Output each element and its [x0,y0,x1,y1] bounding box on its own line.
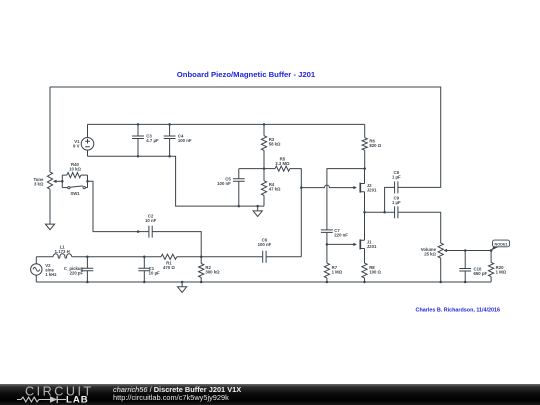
capacitor C8 1uF [395,181,398,193]
label C10 [474,266,488,276]
node R40 left [61,180,64,183]
svg-text:1.173 H: 1.173 H [55,249,70,254]
wire top rail from Tune top to C8 right drop [50,87,441,187]
svg-text:LAB: LAB [66,394,89,405]
node drain J2 [363,167,366,170]
label R2 [205,265,220,275]
node C4 bottom [168,155,171,158]
label C1 [149,266,160,276]
svg-text:10 µF: 10 µF [149,271,160,276]
svg-text:NODE1: NODE1 [495,242,508,246]
label R5 [275,156,290,166]
ground mid rail [253,206,262,216]
node J2 source [363,211,366,214]
node C3 top [137,123,140,126]
svg-text:1 µF: 1 µF [392,200,401,205]
svg-text:58 kΩ: 58 kΩ [269,142,281,147]
label R4 [269,182,281,192]
resistor R4 47k [261,169,266,207]
title text [177,70,316,79]
node C10 top [464,249,467,252]
wire V1 bottom lead [87,150,89,156]
node R20 top [490,249,493,252]
label R7 [332,265,343,275]
wire V1 minus rail [88,156,265,206]
node divider [263,167,266,170]
label J2 [367,183,377,193]
capacitor C10 650pF [459,251,471,283]
svg-text:300 kΩ: 300 kΩ [205,269,220,274]
node C_pickup top [86,256,89,259]
node rail R8 [363,281,366,284]
banner bar [0,384,540,405]
signature text [416,307,501,313]
svg-text:10 nF: 10 nF [145,218,157,223]
node rail C_pickup [86,281,89,284]
wire V2 bottom lead [35,275,37,282]
svg-text:47 kΩ: 47 kΩ [269,187,281,192]
svg-text:Onboard Piezo/Magnetic Buffer: Onboard Piezo/Magnetic Buffer - J201 [177,70,316,79]
potentiometer Tune 3k [47,172,62,189]
svg-text:220 pF: 220 pF [70,271,84,276]
wire SW1 to C2 [88,181,149,231]
label C9 [392,195,401,205]
label C8 [392,170,401,180]
label R3 [269,137,281,147]
wire J1 gate line [327,243,354,245]
svg-text:820 Ω: 820 Ω [369,143,381,148]
node J1 gate [326,243,329,246]
wire signal line mid [72,256,161,258]
svg-text:470 Ω: 470 Ω [163,265,175,270]
svg-text:Charles B. Richardson, 11/4/20: Charles B. Richardson, 11/4/2016 [416,307,501,313]
resistor R8 100 [362,263,367,282]
node J2 gate [300,186,303,189]
svg-text:25 kΩ: 25 kΩ [424,251,436,256]
capacitor C_pickup 220pF [82,257,94,282]
resistor R40 box sides [62,175,87,188]
wire drain node line [327,169,365,230]
label Tune [33,177,44,187]
node on C2 wire [137,230,140,233]
label C3 [146,134,159,144]
svg-text:220 nF: 220 nF [334,233,348,238]
ground below Tune [45,219,54,229]
node ground mid [256,205,259,208]
inductor L1 [53,254,72,258]
label V1 [73,139,80,149]
svg-text:100 nF: 100 nF [178,138,192,143]
node C8 tap [383,211,386,214]
wire gate node to C6 [300,188,302,257]
svg-text:3.3 MΩ: 3.3 MΩ [275,161,290,166]
transistor J2 J201 [360,169,364,213]
resistor R40 box top [62,173,87,178]
label L1 [55,244,70,254]
svg-text:4.7 µF: 4.7 µF [146,138,159,143]
capacitor C4 100nF [164,124,176,156]
label R20 [496,265,507,275]
resistor R7 1M [324,244,329,282]
svg-text:3 kΩ: 3 kΩ [34,182,44,187]
voltage source V1 9V [81,138,94,151]
capacitor C7 220nF [321,230,333,245]
svg-text:1 MΩ: 1 MΩ [332,269,343,274]
node C3 bottom [137,155,140,158]
svg-text:9 V: 9 V [73,144,80,149]
label Volume [421,247,437,257]
wire V1 top lead [87,124,89,137]
node R2 top [200,256,203,259]
label J1 [367,240,377,250]
label R1 [163,261,175,271]
label C4 [178,134,192,144]
wire C6 right to riser [266,256,301,258]
ground bottom rail [178,282,187,292]
label R40 [69,162,81,172]
label C_pickup [64,266,84,276]
svg-text:1 MΩ: 1 MΩ [496,269,507,274]
wire signal line left [36,256,53,258]
arrow J1 gate [353,243,357,246]
node rail C1 [143,281,146,284]
label SW1 [70,191,80,196]
potentiometer Volume 25k [438,243,491,282]
capacitor C9 1uF [395,206,398,218]
voltage source V2 sine [31,264,42,275]
node rail R7 [326,281,329,284]
svg-text:J201: J201 [367,187,377,192]
wire C8 branch [385,187,395,212]
label C6 [258,238,272,248]
node rail Volume [439,281,442,284]
node C5 bottom [238,205,241,208]
resistor R5 3.3M [264,166,301,188]
node R40 right [86,180,89,183]
svg-text:J201: J201 [367,244,377,249]
capacitor C1 10uF [138,257,150,282]
resistor R20 1M [489,251,494,283]
label C2 [145,214,157,224]
wire C5 to divider node [239,168,264,170]
label C5 [217,176,231,186]
svg-text:SW1: SW1 [70,191,80,196]
switch SW1 [62,186,87,189]
svg-text:1 kHz: 1 kHz [45,272,56,277]
banner text [113,385,241,403]
resistor R6 820 [362,124,367,168]
svg-text:10 kΩ: 10 kΩ [69,167,81,172]
svg-text:100 Ω: 100 Ω [369,269,381,274]
capacitor C6 100nF [263,251,266,263]
node rail ground [181,281,184,284]
node R3 top [263,123,266,126]
wire Tune bottom [49,189,51,219]
node C4 top [168,123,171,126]
wire C2 to R2 node [152,232,201,257]
label R6 [369,139,381,149]
label R8 [369,265,381,275]
resistor R3 58k [261,124,266,168]
node rail C10 [464,281,467,284]
node flag NODE1 [490,240,510,252]
wire V1 plus rail [88,123,365,125]
transistor J1 J201 [360,212,364,263]
wire left drop to Tune pot [49,87,51,172]
capacitor C5 100nF [233,169,245,207]
label C7 [334,228,348,238]
wire signal line right [177,256,263,258]
wire V2 top lead [35,257,37,264]
wire source node line [365,211,395,213]
svg-text:100 nF: 100 nF [217,181,231,186]
svg-text:100 nF: 100 nF [258,242,272,247]
capacitor C3 4.7uF [132,124,144,156]
svg-text:1 µF: 1 µF [392,175,401,180]
wire J2 gate line with hop [301,185,354,188]
capacitor C2 10nF [149,226,152,238]
resistor R2 300k [199,257,204,282]
wire C9 right to Volume [398,212,441,243]
svg-text:650 pF: 650 pF [474,271,488,276]
label V2 [45,263,56,277]
node rail R2 [200,281,203,284]
resistor R1 470 [161,254,177,259]
wire bottom ground rail [36,281,491,283]
arrow J2 gate [353,186,357,189]
logo CIRCUIT LAB [0,384,100,405]
node C1 top [143,256,146,259]
